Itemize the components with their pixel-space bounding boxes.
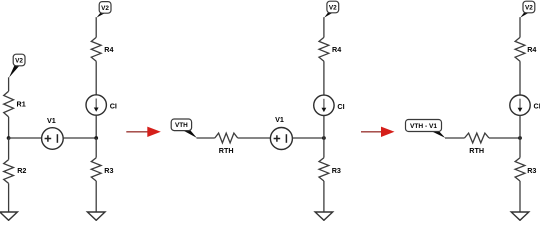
wire V2 to R4 <box>95 17 97 37</box>
wire CI to node <box>323 116 325 139</box>
ground <box>0 212 17 220</box>
svg-text:R4: R4 <box>527 45 536 54</box>
wire node to R3 <box>95 138 97 158</box>
wire RTH to V1 <box>238 137 271 139</box>
wire CI to node <box>519 115 521 138</box>
svg-text:V1: V1 <box>275 115 284 124</box>
net label V2 <box>520 1 535 17</box>
resistor R3 <box>515 158 536 181</box>
wire node to R3 <box>323 138 325 158</box>
wire VTH-V1 to RTH <box>445 137 465 139</box>
svg-text:RTH: RTH <box>219 146 234 155</box>
svg-text:CI: CI <box>110 102 117 111</box>
wire RTH to node <box>489 137 520 139</box>
svg-text:RTH: RTH <box>469 146 484 155</box>
wire R3 to ground <box>95 181 97 212</box>
svg-text:R2: R2 <box>17 166 26 175</box>
svg-text:R3: R3 <box>332 166 341 175</box>
current source CI <box>510 95 540 115</box>
junction node <box>7 136 11 140</box>
resistor R1 <box>4 91 26 117</box>
resistor R2 <box>4 160 27 184</box>
ground <box>315 212 333 220</box>
svg-text:R4: R4 <box>332 45 341 54</box>
svg-text:V2: V2 <box>525 4 533 11</box>
wire V1 to node <box>63 137 96 139</box>
resistor RTH <box>215 133 238 155</box>
net label V2 <box>97 2 112 18</box>
wire V2 to R4 <box>323 17 325 37</box>
svg-text:VTH: VTH <box>175 122 188 129</box>
wire R1 to node <box>8 117 10 138</box>
net label VTH - V1 <box>406 120 446 138</box>
red transformation arrow <box>126 127 161 137</box>
net label V2 <box>9 54 25 78</box>
wire V2 to R4 <box>519 17 521 37</box>
wire node to V1 <box>9 137 42 139</box>
red transformation arrow <box>361 127 395 137</box>
junction node <box>322 136 326 140</box>
voltage source V1 <box>42 116 64 149</box>
wire R4 to CI <box>95 61 97 95</box>
resistor RTH <box>465 133 490 155</box>
net label V2 <box>324 1 338 17</box>
ground <box>511 212 529 220</box>
wire V2 to R1 <box>8 77 10 91</box>
wire CI to node <box>95 115 97 138</box>
wire R2 to ground <box>8 183 10 212</box>
wire R3 to ground <box>519 181 521 212</box>
wire node to R3 <box>519 138 521 158</box>
svg-text:V1: V1 <box>47 116 56 125</box>
ground <box>87 212 105 220</box>
voltage source V1 <box>270 115 292 150</box>
wire R4 to CI <box>323 61 325 95</box>
svg-text:V2: V2 <box>15 57 23 64</box>
svg-text:R3: R3 <box>527 166 536 175</box>
svg-text:V2: V2 <box>329 4 337 11</box>
svg-text:CI: CI <box>337 102 344 111</box>
resistor R3 <box>319 158 341 181</box>
svg-text:CI: CI <box>534 102 540 111</box>
wire V1 to node <box>292 137 324 139</box>
svg-text:R3: R3 <box>104 166 113 175</box>
wire R4 to CI <box>519 61 521 95</box>
wire VTH to RTH <box>197 137 215 139</box>
current source CI <box>86 95 117 115</box>
wire node to R2 <box>8 138 10 160</box>
current source CI <box>314 95 345 115</box>
wire R3 to ground <box>323 181 325 212</box>
resistor R4 <box>515 37 536 61</box>
svg-text:V2: V2 <box>101 5 109 12</box>
svg-text:R1: R1 <box>17 100 26 109</box>
junction node <box>518 136 522 140</box>
resistor R4 <box>319 37 341 61</box>
svg-text:R4: R4 <box>104 45 113 54</box>
net label VTH <box>171 119 197 138</box>
svg-text:VTH - V1: VTH - V1 <box>410 123 437 130</box>
resistor R3 <box>91 158 113 181</box>
junction node <box>94 136 98 140</box>
resistor R4 <box>91 37 113 61</box>
